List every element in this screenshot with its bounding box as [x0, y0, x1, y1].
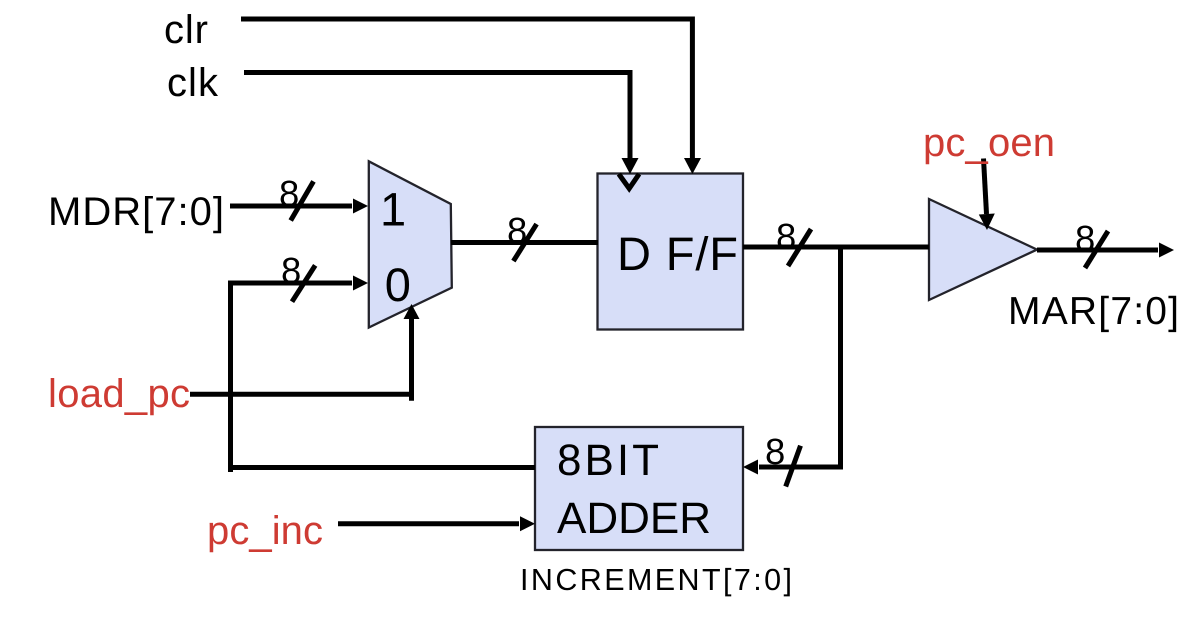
svg-text:8: 8	[507, 210, 527, 251]
svg-text:MDR[7:0]: MDR[7:0]	[48, 190, 224, 234]
svg-text:pc_oen: pc_oen	[923, 121, 1055, 165]
svg-text:1: 1	[380, 182, 406, 235]
svg-text:clr: clr	[164, 8, 208, 52]
svg-text:8: 8	[279, 173, 299, 214]
svg-text:8: 8	[1075, 218, 1095, 259]
svg-text:8: 8	[281, 250, 301, 291]
svg-text:clk: clk	[167, 61, 219, 105]
svg-text:8BIT: 8BIT	[557, 436, 659, 485]
svg-text:ADDER: ADDER	[557, 494, 711, 543]
svg-text:8: 8	[776, 216, 796, 257]
svg-text:pc_inc: pc_inc	[207, 509, 323, 553]
svg-text:D F/F: D F/F	[617, 227, 738, 280]
svg-text:MAR[7:0]: MAR[7:0]	[1008, 290, 1179, 333]
svg-text:8: 8	[765, 431, 785, 472]
svg-text:0: 0	[385, 258, 411, 311]
svg-text:load_pc: load_pc	[48, 372, 190, 416]
